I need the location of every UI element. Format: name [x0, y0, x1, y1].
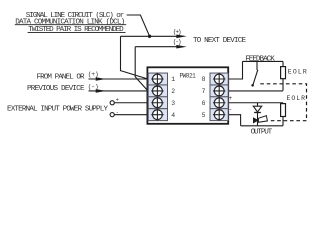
terminal 1 — [148, 73, 167, 85]
svg-text:-: - — [229, 106, 233, 113]
svg-text:1: 1 — [171, 76, 175, 83]
terminal 3 — [148, 97, 167, 109]
wire diode to device — [257, 113, 259, 126]
output device (polarized sounder) — [253, 116, 267, 124]
wire leader from note text — [127, 15, 150, 36]
wire power supply - into pin 4 — [114, 114, 147, 116]
svg-text:TO NEXT DEVICE: TO NEXT DEVICE — [193, 37, 246, 45]
resistor EOLR1 feedback — [281, 67, 286, 79]
svg-text:6: 6 — [202, 100, 206, 107]
terminal 2 — [148, 85, 167, 97]
svg-text:(-): (-) — [88, 84, 99, 91]
switch S1 blade — [252, 70, 257, 87]
wire pin 7 feedback bottom run — [228, 90, 283, 92]
wire SLC(+) top horizontal to next device — [121, 35, 181, 37]
svg-text:FROM PANEL OR: FROM PANEL OR — [37, 73, 85, 81]
svg-text:(+): (+) — [173, 28, 182, 35]
svg-text:-: - — [116, 108, 119, 115]
svg-text:PREVIOUS DEVICE: PREVIOUS DEVICE — [27, 85, 85, 93]
svg-text:3: 3 — [171, 100, 175, 107]
arrowhead to-next-device (-) — [176, 45, 187, 49]
terminal 5 — [210, 109, 228, 121]
wire vertical drop from SLC(+) — [121, 36, 148, 79]
svg-text:+: + — [116, 96, 119, 103]
arrowhead from panel (-) — [96, 89, 107, 93]
power supply terminal circle - — [110, 113, 114, 117]
svg-text:(-): (-) — [173, 39, 182, 46]
wire feedback top run — [243, 60, 284, 62]
svg-text:PW821: PW821 — [180, 72, 197, 79]
arrowhead to-next-device (+) — [176, 35, 187, 39]
arrowhead from panel (+) — [96, 77, 107, 81]
svg-text:EOLR: EOLR — [288, 68, 307, 75]
svg-text:8: 8 — [202, 76, 206, 83]
junction dot leader — [148, 35, 151, 38]
wire feedback right drop to EOLR — [282, 61, 284, 66]
wire from panel (+) into pin 1 — [89, 78, 148, 80]
svg-text:5: 5 — [202, 112, 206, 119]
wire pin 8 to feedback loop — [228, 61, 242, 79]
svg-text:+: + — [229, 95, 233, 102]
wire from panel (-) into pin 2 — [89, 90, 148, 92]
svg-text:(+): (+) — [88, 71, 99, 78]
power supply terminal circle + — [110, 101, 114, 105]
svg-text:4: 4 — [171, 112, 175, 119]
wire output bottom run — [241, 125, 283, 127]
wire vertical drop from SLC(-) — [135, 47, 148, 91]
terminal 4 — [148, 109, 167, 121]
dashed linkage switch to EOLR output — [260, 84, 306, 121]
terminal 6 — [210, 97, 228, 109]
diode D1 — [253, 106, 261, 112]
diode D1 anode stub — [257, 103, 259, 106]
svg-text:OUTPUT: OUTPUT — [251, 129, 273, 137]
wire EOLR2 bottom lead — [282, 117, 284, 126]
svg-text:EXTERNAL INPUT POWER SUPPLY: EXTERNAL INPUT POWER SUPPLY — [7, 106, 108, 114]
resistor EOLR2 output — [281, 104, 286, 117]
svg-text:7: 7 — [202, 88, 206, 95]
terminal 8 — [210, 73, 228, 85]
wire SLC(-) top horizontal to next device — [135, 46, 180, 48]
svg-text:EOLR: EOLR — [287, 95, 306, 102]
junction dot switch bottom — [251, 84, 254, 87]
svg-text:2: 2 — [171, 88, 175, 95]
terminal 7 — [210, 85, 228, 97]
wire power supply + into pin 3 — [114, 102, 147, 104]
wire EOLR1 bottom lead — [282, 79, 284, 91]
terminal block PW821 body — [147, 67, 228, 124]
wire pin 6 output top run — [228, 102, 283, 104]
wire pin 5 to output bottom — [228, 115, 240, 126]
svg-text:FEEDBACK: FEEDBACK — [245, 55, 275, 63]
switch S1 stub — [256, 61, 258, 70]
wire EOLR2 top lead — [282, 103, 284, 104]
